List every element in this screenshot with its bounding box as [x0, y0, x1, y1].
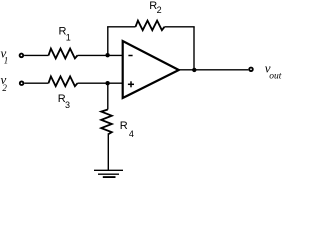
wire v1 to R1 — [24, 54, 48, 56]
svg-text:1: 1 — [66, 33, 71, 43]
wire feedback left vertical — [107, 27, 109, 56]
terminal v1 — [20, 54, 24, 58]
resistor R1 — [49, 49, 78, 59]
ground — [94, 169, 123, 171]
node B junction dot (non-inverting input node) — [105, 81, 109, 85]
wire node B down to R4 — [107, 83, 109, 109]
wire R4 to ground — [107, 135, 109, 171]
svg-text:out: out — [269, 72, 282, 82]
wire op-amp output to vout terminal — [179, 69, 249, 71]
wire R1 to op-amp minus input — [78, 54, 123, 56]
resistor R3 — [49, 76, 78, 86]
wire R3 to op-amp plus input — [78, 82, 123, 84]
op-amp minus pin mark — [128, 55, 132, 57]
svg-text:3: 3 — [65, 100, 70, 110]
svg-text:1: 1 — [4, 55, 9, 65]
svg-text:R: R — [120, 120, 128, 132]
wire feedback right vertical — [193, 27, 195, 70]
op-amp U1 — [123, 41, 179, 98]
svg-text:2: 2 — [2, 83, 7, 93]
terminal vout — [249, 68, 253, 72]
wire top rail left segment — [107, 26, 135, 28]
svg-text:2: 2 — [157, 5, 162, 15]
svg-text:4: 4 — [129, 129, 134, 139]
resistor R4 — [101, 110, 112, 135]
wire top rail right segment — [165, 26, 195, 28]
op-amp plus pin mark — [128, 83, 134, 85]
wire v2 to R3 — [24, 82, 48, 84]
resistor R2 — [136, 21, 165, 31]
terminal v2 — [20, 81, 24, 85]
node A junction dot (inverting input node) — [105, 53, 109, 57]
node output junction dot — [192, 68, 196, 72]
